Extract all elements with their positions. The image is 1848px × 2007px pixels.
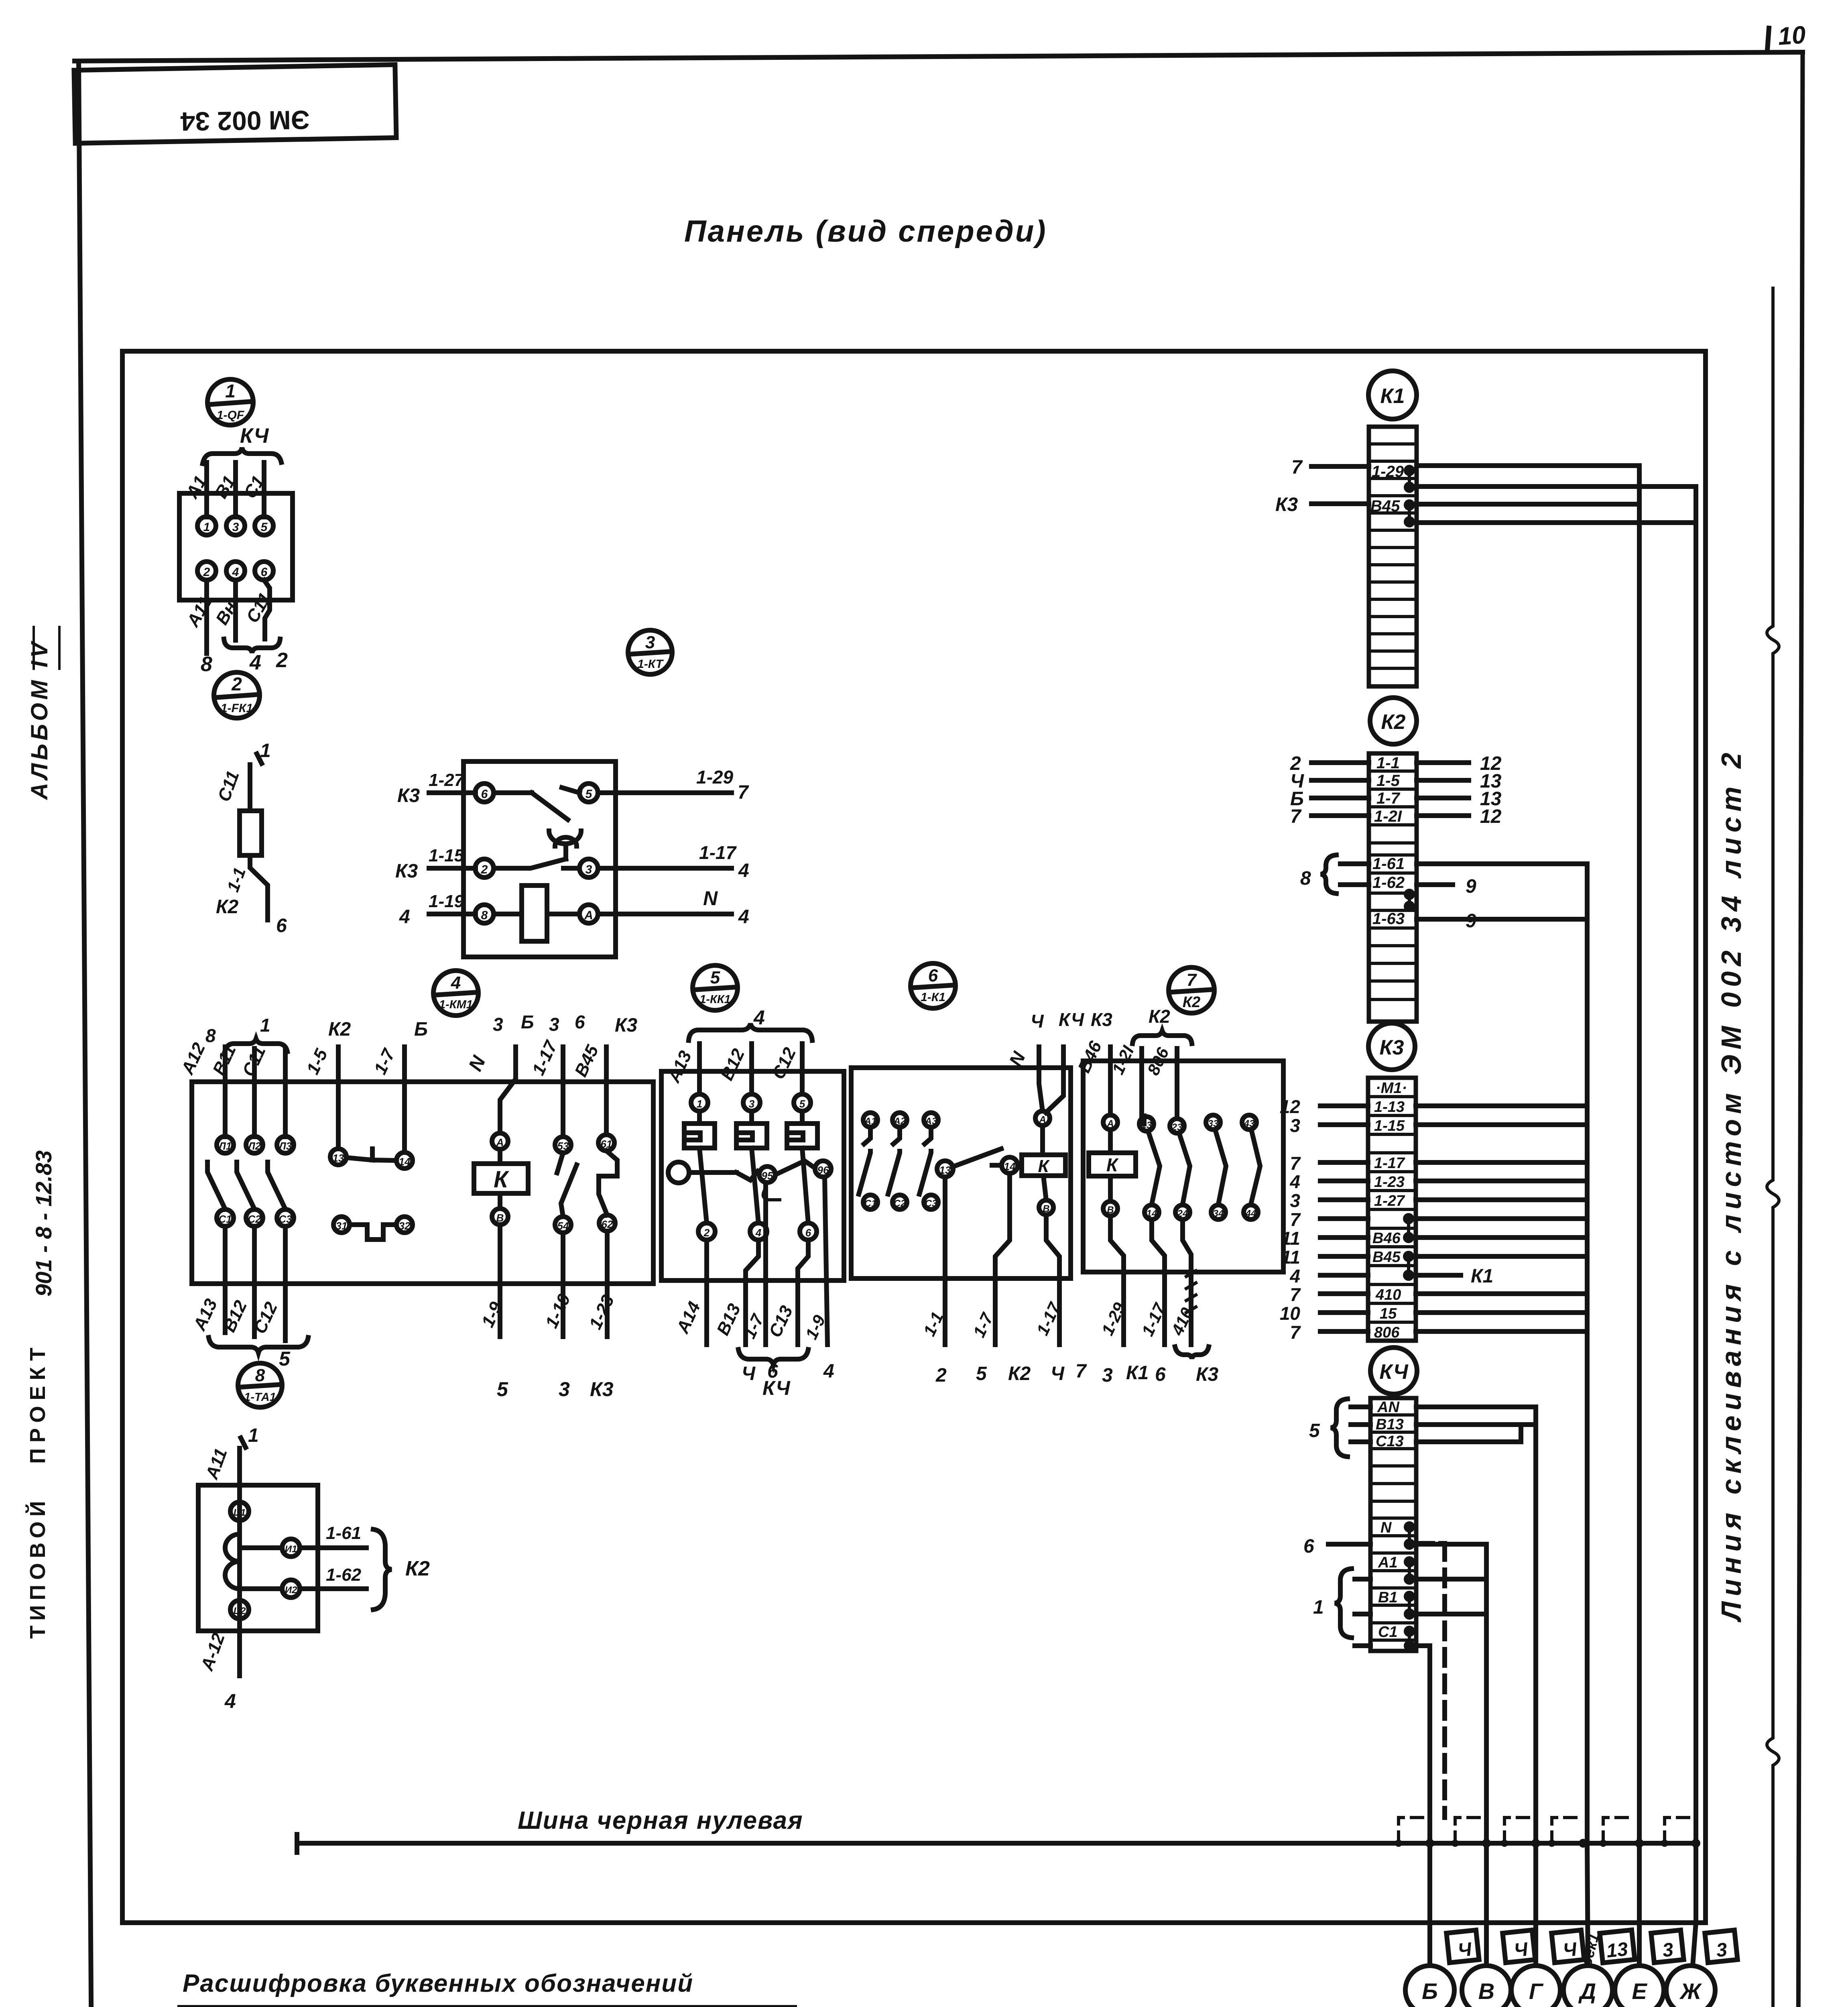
svg-text:1-7: 1-7 bbox=[1376, 790, 1401, 807]
svg-text:13: 13 bbox=[939, 1164, 951, 1176]
riser G upper corners bbox=[1519, 1425, 1523, 1442]
svg-text:1-7: 1-7 bbox=[370, 1045, 399, 1078]
svg-text:Линия склеивания с листом: Линия склеивания с листом ЭМ 002 34 лист… bbox=[1716, 747, 1747, 1622]
terminal 5 bbox=[579, 784, 598, 802]
svg-text:С1: С1 bbox=[218, 1213, 232, 1225]
bracket over B11 C11 bbox=[225, 1039, 287, 1052]
page border top bbox=[75, 52, 1803, 61]
K2 strip body bbox=[1369, 753, 1417, 1022]
blade 33-34 bbox=[1215, 1130, 1226, 1204]
svg-text:3: 3 bbox=[1290, 1115, 1300, 1136]
pole C wire out bbox=[283, 1226, 288, 1341]
page border right bbox=[1797, 52, 1803, 2007]
wire 12b from K2 bbox=[1417, 813, 1469, 818]
svg-text:8: 8 bbox=[481, 909, 488, 922]
aux 53-54 blade bbox=[557, 1153, 563, 1173]
terminal 3 bbox=[743, 1094, 760, 1111]
pole C wire in bbox=[283, 1050, 288, 1137]
coil terminal B bbox=[492, 1209, 508, 1225]
reset button bbox=[668, 1162, 689, 1183]
wire K1 jumper2 to riser Zh bbox=[1417, 520, 1696, 525]
svg-text:3: 3 bbox=[1661, 1939, 1674, 1962]
svg-text:1-КТ: 1-КТ bbox=[637, 657, 664, 671]
aux contact 31 bbox=[333, 1217, 350, 1233]
sheet number tick bbox=[1767, 28, 1769, 50]
contact 95-96 blade bbox=[776, 1161, 814, 1174]
svg-text:К1: К1 bbox=[1471, 1266, 1493, 1287]
wire B13 in bbox=[1351, 1422, 1370, 1427]
svg-text:4: 4 bbox=[224, 1690, 236, 1712]
aux contact 14 bbox=[396, 1152, 413, 1168]
contact A3 bbox=[924, 1113, 938, 1127]
svg-text:4: 4 bbox=[753, 1006, 765, 1029]
svg-text:Л1: Л1 bbox=[218, 1140, 232, 1152]
secondary lead 1-62 bbox=[240, 1586, 366, 1591]
contact 13 bbox=[1139, 1117, 1154, 1131]
svg-text:Панель (вид спереди): Панель (вид спереди) bbox=[684, 214, 1047, 248]
svg-text:АN: АN bbox=[1377, 1399, 1400, 1416]
fuse wire lower with jog bbox=[250, 855, 268, 920]
brace 1 left bbox=[1335, 1569, 1352, 1638]
svg-text:806: 806 bbox=[1144, 1044, 1173, 1078]
svg-text:Шина черная нулевая: Шина черная нулевая bbox=[518, 1807, 803, 1834]
coil terminal A bbox=[1035, 1111, 1050, 1126]
riser cable Zh bbox=[1693, 486, 1698, 1923]
wire K3 1-27 bbox=[429, 790, 476, 795]
svg-text:6: 6 bbox=[261, 566, 268, 579]
cable circle D bbox=[1563, 1966, 1612, 2007]
fuse wire upper bbox=[248, 765, 252, 811]
wire A11 out bbox=[204, 580, 209, 653]
svg-text:И1: И1 bbox=[285, 1544, 297, 1555]
wire B13 out bbox=[746, 1240, 758, 1345]
breaker QF body bbox=[179, 493, 293, 600]
svg-text:4: 4 bbox=[399, 906, 410, 928]
wire B45 K3 bbox=[604, 1047, 609, 1135]
svg-text:1: 1 bbox=[248, 1425, 259, 1446]
aux 61-62 blade bbox=[599, 1151, 617, 1215]
svg-text:К3: К3 bbox=[1380, 1036, 1404, 1059]
wire C11 out with jog bbox=[264, 580, 270, 639]
svg-text:6: 6 bbox=[1155, 1364, 1166, 1385]
pole B wire out bbox=[252, 1226, 257, 1337]
wire 1-21 bbox=[1139, 1048, 1144, 1116]
svg-text:14: 14 bbox=[399, 1156, 411, 1168]
svg-text:10: 10 bbox=[1280, 1303, 1301, 1324]
svg-text:К2: К2 bbox=[1149, 1006, 1170, 1027]
svg-text:1-КК1: 1-КК1 bbox=[699, 993, 731, 1006]
aux 54 wire out bbox=[561, 1233, 565, 1337]
inverted stamp box bbox=[74, 65, 396, 143]
svg-text:3: 3 bbox=[493, 1014, 503, 1035]
K1 jumper 1-29 bbox=[1406, 467, 1413, 491]
svg-text:1-2I: 1-2I bbox=[1374, 808, 1402, 825]
svg-text:11: 11 bbox=[1281, 1228, 1300, 1249]
blade 13-14 bbox=[1148, 1131, 1160, 1204]
svg-text:1-5: 1-5 bbox=[1376, 772, 1400, 790]
cable E drop bbox=[1637, 1843, 1642, 1966]
svg-text:1-КМ1: 1-КМ1 bbox=[439, 998, 473, 1011]
contact 33 bbox=[1206, 1115, 1220, 1130]
wire B12 in bbox=[749, 1044, 754, 1094]
svg-text:1-15: 1-15 bbox=[429, 846, 464, 865]
svg-text:53: 53 bbox=[557, 1140, 569, 1152]
position circle 3/1-KT bbox=[628, 630, 672, 674]
K3 jumper b bbox=[1405, 1253, 1412, 1278]
svg-text:КЧ: КЧ bbox=[762, 1377, 791, 1399]
svg-text:54: 54 bbox=[557, 1220, 569, 1232]
coil terminal A bbox=[492, 1133, 508, 1149]
svg-text:1-1: 1-1 bbox=[223, 865, 249, 894]
dashed hook top bbox=[1421, 1541, 1445, 1546]
coil terminal A bbox=[1103, 1115, 1118, 1130]
terminal 5 bbox=[794, 1094, 811, 1111]
svg-text:1-17: 1-17 bbox=[699, 842, 737, 863]
svg-text:Б: Б bbox=[521, 1012, 534, 1032]
svg-text:6: 6 bbox=[928, 966, 938, 985]
svg-text:К2: К2 bbox=[1008, 1363, 1031, 1384]
time contact blade bbox=[532, 793, 568, 820]
K4 strip body bbox=[1370, 1398, 1416, 1651]
coil A to coil bbox=[498, 1149, 502, 1164]
svg-text:К2: К2 bbox=[405, 1557, 430, 1580]
bracket 4 over KK1 bbox=[689, 1024, 812, 1040]
svg-text:410: 410 bbox=[1375, 1286, 1401, 1303]
cable B drop bbox=[1427, 1843, 1432, 1966]
svg-text:3: 3 bbox=[232, 521, 239, 534]
wire C1 pair to riser B bbox=[1416, 1643, 1430, 1648]
svg-text:1-63: 1-63 bbox=[1372, 910, 1405, 928]
svg-text:В46: В46 bbox=[1372, 1230, 1401, 1247]
svg-text:1: 1 bbox=[260, 740, 271, 761]
wire K1 jumper to riser Zh bbox=[1417, 484, 1696, 489]
wire C12 in bbox=[800, 1044, 805, 1094]
wire 1-61 in bbox=[1340, 861, 1369, 866]
contact A1 bbox=[863, 1113, 878, 1127]
coil terminal B bbox=[1103, 1201, 1118, 1216]
svg-text:1-27: 1-27 bbox=[1374, 1193, 1405, 1209]
terminal 2 bbox=[698, 1223, 715, 1240]
aux contact 32 bbox=[396, 1217, 413, 1233]
svg-text:В45: В45 bbox=[1370, 497, 1400, 515]
svg-text:1-23: 1-23 bbox=[586, 1292, 618, 1333]
14 wire out bbox=[1152, 1219, 1165, 1345]
hatch marks on 410 wire bbox=[1186, 1271, 1196, 1313]
contact 14 bbox=[1145, 1205, 1159, 1219]
wire 13b from K2 bbox=[1417, 796, 1469, 800]
wire K3 to K1 bbox=[1311, 501, 1369, 506]
svg-text:2: 2 bbox=[481, 863, 488, 876]
svg-text:С2: С2 bbox=[894, 1198, 906, 1209]
svg-text:4: 4 bbox=[1289, 1171, 1300, 1192]
node K2 bbox=[1370, 698, 1417, 744]
svg-text:1-ТА1: 1-ТА1 bbox=[244, 1391, 276, 1404]
riser cable B bbox=[1427, 1646, 1432, 1843]
svg-text:6: 6 bbox=[1303, 1536, 1314, 1557]
svg-text:5: 5 bbox=[1309, 1420, 1320, 1441]
bracket under A13 B12 C12 bbox=[209, 1337, 308, 1353]
K4 jumper B1 bbox=[1406, 1593, 1413, 1617]
cable Zh drop bbox=[1693, 1923, 1696, 1966]
svg-text:8: 8 bbox=[255, 1366, 265, 1385]
conductor count tag B bbox=[1446, 1930, 1479, 1962]
svg-text:44: 44 bbox=[1245, 1208, 1256, 1219]
coil right lead bbox=[547, 912, 579, 916]
wire B13 to riser G bbox=[1416, 1422, 1536, 1427]
terminal 8 bbox=[475, 905, 494, 923]
24 wire out hatched 410 bbox=[1183, 1219, 1191, 1345]
svg-text:ЭМ 002 34: ЭМ 002 34 bbox=[180, 105, 310, 136]
svg-text:1-29: 1-29 bbox=[696, 767, 733, 788]
svg-text:8: 8 bbox=[1300, 868, 1311, 889]
bus end tick bbox=[295, 1834, 299, 1852]
svg-text:2: 2 bbox=[276, 649, 288, 672]
svg-text:7: 7 bbox=[1187, 970, 1197, 990]
wire 6 to K2 bbox=[1311, 796, 1369, 800]
svg-text:К3: К3 bbox=[395, 861, 418, 882]
brace 5 left bbox=[1331, 1399, 1348, 1457]
svg-text:К: К bbox=[1038, 1156, 1050, 1176]
svg-text:1-13: 1-13 bbox=[1374, 1099, 1405, 1115]
terminal 2 bbox=[197, 562, 216, 580]
wire C13 in bbox=[1351, 1439, 1370, 1444]
blade 43-44 bbox=[1251, 1130, 1260, 1204]
svg-text:Л3: Л3 bbox=[278, 1140, 292, 1152]
svg-text:901 - 8 - 12.83: 901 - 8 - 12.83 bbox=[31, 1150, 56, 1297]
svg-text:13: 13 bbox=[333, 1152, 344, 1164]
svg-text:Ч: Ч bbox=[1031, 1011, 1044, 1032]
svg-text:К: К bbox=[1106, 1154, 1119, 1175]
svg-text:К3: К3 bbox=[1196, 1364, 1219, 1385]
pole C terminal C3 bbox=[277, 1209, 294, 1226]
wire 1-61 to riser D bbox=[1417, 861, 1587, 866]
terminal I1 bbox=[282, 1539, 300, 1557]
svg-text:А11: А11 bbox=[202, 1446, 231, 1482]
fuse body bbox=[240, 811, 262, 855]
aux contact 13 bbox=[937, 1161, 953, 1177]
terminal 6 bbox=[800, 1223, 817, 1240]
svg-text:8: 8 bbox=[201, 653, 212, 676]
K3 left pin numbers bbox=[1280, 1096, 1301, 1343]
svg-text:В13: В13 bbox=[1376, 1416, 1404, 1433]
pole B terminal L2 bbox=[246, 1136, 263, 1153]
svg-text:1-61: 1-61 bbox=[326, 1523, 361, 1543]
position circle 8/1-TA1 bbox=[238, 1363, 282, 1407]
terminal 3 bbox=[579, 859, 598, 877]
delay arc outer bbox=[549, 831, 581, 844]
svg-text:Ж: Ж bbox=[1679, 1979, 1702, 2004]
svg-text:В: В bbox=[496, 1212, 504, 1224]
roman IV overline bbox=[33, 627, 35, 669]
svg-text:Д: Д bbox=[1578, 1979, 1596, 2004]
wire 1-1 out bbox=[943, 1177, 947, 1345]
wire C13 to riser G bbox=[1416, 1439, 1521, 1444]
svg-text:С2: С2 bbox=[248, 1213, 261, 1225]
svg-text:15: 15 bbox=[1380, 1305, 1397, 1322]
contactor KM1 body bbox=[192, 1082, 653, 1284]
svg-text:7: 7 bbox=[1290, 1322, 1301, 1343]
svg-text:К2: К2 bbox=[216, 896, 239, 918]
K3 jumper a bbox=[1405, 1215, 1412, 1241]
svg-text:6: 6 bbox=[575, 1012, 585, 1032]
position circle 7/K2 bbox=[1169, 967, 1214, 1013]
wire K1 B45 to riser E bbox=[1417, 502, 1639, 507]
svg-text:3: 3 bbox=[549, 1014, 559, 1035]
svg-text:Ч: Ч bbox=[1513, 1939, 1529, 1961]
svg-text:К: К bbox=[494, 1166, 509, 1193]
pole B terminal C2 bbox=[246, 1209, 263, 1226]
svg-text:А13: А13 bbox=[664, 1048, 695, 1086]
wire B1 in bbox=[1355, 1612, 1370, 1616]
svg-text:4: 4 bbox=[232, 566, 239, 579]
K4 jumper A1 bbox=[1406, 1559, 1413, 1582]
svg-text:А: А bbox=[584, 909, 593, 922]
svg-text:3: 3 bbox=[1102, 1365, 1113, 1386]
svg-text:Расшифровка буквенных обозна: Расшифровка буквенных обозначений bbox=[183, 1970, 693, 1997]
dashed riser bbox=[1442, 1543, 1447, 1818]
svg-text:7: 7 bbox=[1290, 806, 1302, 827]
svg-text:А13: А13 bbox=[189, 1296, 221, 1334]
svg-text:1-15: 1-15 bbox=[1374, 1117, 1405, 1134]
svg-text:1: 1 bbox=[1313, 1597, 1324, 1618]
test contact 95 bbox=[759, 1166, 775, 1183]
svg-text:С3: С3 bbox=[279, 1213, 292, 1225]
cable D drop bbox=[1587, 1843, 1588, 1966]
wire 12 from K2 bbox=[1417, 760, 1469, 765]
wire N into coil bbox=[1039, 1047, 1043, 1111]
coil K1 bbox=[1022, 1155, 1065, 1176]
bracket under B11 C11 bbox=[224, 639, 280, 653]
svg-text:В45: В45 bbox=[571, 1042, 603, 1080]
aux contact 14 bbox=[1002, 1157, 1018, 1173]
svg-text:9: 9 bbox=[1466, 876, 1476, 897]
svg-text:1: 1 bbox=[260, 1015, 270, 1036]
svg-text:31: 31 bbox=[336, 1220, 348, 1232]
svg-text:КЧ: КЧ bbox=[240, 424, 269, 448]
coil KM1 bbox=[474, 1164, 528, 1193]
test blade bbox=[736, 1171, 758, 1180]
conductor count tag V bbox=[1502, 1930, 1535, 1962]
svg-text:Б: Б bbox=[414, 1019, 428, 1040]
svg-text:С1: С1 bbox=[864, 1198, 877, 1209]
heater 3 bbox=[787, 1111, 817, 1148]
position circle 4/1-KM1 bbox=[433, 971, 478, 1016]
wire 1-17 3 6 bbox=[561, 1047, 565, 1137]
terminal 3 bbox=[226, 517, 245, 535]
svg-text:1-19: 1-19 bbox=[429, 892, 464, 911]
svg-text:К1: К1 bbox=[1126, 1362, 1149, 1384]
wire 2 to K2 bbox=[1311, 760, 1369, 765]
wire B11 out bbox=[233, 580, 238, 640]
pole B blade bbox=[237, 1162, 254, 1209]
terminal 6 bbox=[255, 562, 273, 580]
pole A wire in bbox=[223, 1047, 228, 1137]
svg-text:7: 7 bbox=[1291, 457, 1303, 478]
svg-text:К3: К3 bbox=[590, 1378, 614, 1400]
heater 2 lead down bbox=[752, 1148, 758, 1223]
wire B1 pair to riser V bbox=[1416, 1612, 1486, 1616]
svg-text:N: N bbox=[465, 1052, 490, 1075]
svg-text:4: 4 bbox=[738, 860, 749, 881]
wire 1-62 to 9 bbox=[1417, 882, 1453, 887]
svg-text:7: 7 bbox=[738, 782, 749, 803]
svg-text:Е: Е bbox=[1632, 1979, 1647, 2004]
wire AN to riser G bbox=[1416, 1404, 1536, 1409]
svg-text:1-27: 1-27 bbox=[429, 770, 465, 790]
coil A wire N with jog bbox=[500, 1047, 516, 1133]
position circle 2/1-FK1 bbox=[214, 672, 260, 718]
svg-text:33: 33 bbox=[1208, 1118, 1219, 1129]
svg-text:7: 7 bbox=[1290, 1284, 1301, 1305]
svg-text:А12: А12 bbox=[177, 1040, 209, 1078]
svg-text:К3: К3 bbox=[615, 1015, 638, 1036]
K3 strip body bbox=[1368, 1078, 1416, 1341]
wire A1 into QF bbox=[204, 462, 209, 517]
fuse top lead tick bbox=[257, 754, 262, 763]
svg-text:АЛЬБОМ IV: АЛЬБОМ IV bbox=[26, 639, 53, 800]
K4 jumper N bbox=[1406, 1524, 1413, 1547]
riser cable V bbox=[1484, 1544, 1489, 1843]
svg-text:32: 32 bbox=[399, 1220, 411, 1232]
wire A1 in bbox=[1355, 1577, 1370, 1582]
contact T1 fixed lead bbox=[494, 790, 532, 795]
contact 44 bbox=[1244, 1205, 1258, 1219]
svg-text:КЧ: КЧ bbox=[1059, 1009, 1085, 1030]
svg-text:2: 2 bbox=[935, 1365, 947, 1386]
svg-text:95: 95 bbox=[762, 1170, 773, 1182]
cable circle E bbox=[1615, 1966, 1664, 2007]
wire K4 into coil bbox=[1046, 1047, 1063, 1113]
heater 3 lead down bbox=[802, 1148, 808, 1223]
svg-text:1-29: 1-29 bbox=[1372, 463, 1404, 480]
terminal 1 bbox=[691, 1094, 708, 1111]
svg-text:С12: С12 bbox=[768, 1044, 800, 1082]
terminal C2 bbox=[230, 1600, 249, 1619]
terminal 4 bbox=[750, 1223, 767, 1240]
heater 1 lead down bbox=[699, 1148, 707, 1223]
svg-text:5: 5 bbox=[799, 1098, 805, 1110]
bus black null bbox=[297, 1841, 1696, 1846]
glue line wavy bbox=[1767, 288, 1779, 2007]
svg-text:А-12: А-12 bbox=[197, 1630, 229, 1674]
svg-text:К2: К2 bbox=[1381, 710, 1406, 734]
K1 strip body bbox=[1369, 427, 1417, 686]
node K4 bbox=[1370, 1347, 1417, 1394]
svg-text:7: 7 bbox=[1290, 1153, 1301, 1174]
contact 34 bbox=[1211, 1205, 1226, 1219]
svg-text:1: 1 bbox=[697, 1098, 702, 1110]
K3 left wires bbox=[1320, 1106, 1368, 1331]
svg-text:13: 13 bbox=[1605, 1938, 1629, 1962]
svg-text:806: 806 bbox=[1374, 1324, 1400, 1341]
svg-text:1-К1: 1-К1 bbox=[921, 991, 945, 1004]
delay arc inner bbox=[555, 837, 577, 846]
relay KT body bbox=[464, 761, 616, 957]
secondary winding arcs bbox=[225, 1534, 240, 1589]
small hook under blade bbox=[763, 1190, 780, 1200]
riser cable D bbox=[1585, 864, 1590, 1843]
svg-text:Ч: Ч bbox=[742, 1363, 756, 1384]
wire K1 1-29 to riser E bbox=[1417, 463, 1639, 468]
svg-text:1-FК1: 1-FК1 bbox=[221, 702, 253, 715]
terminal A bbox=[579, 905, 598, 923]
svg-text:1-17: 1-17 bbox=[1374, 1155, 1405, 1172]
terminal 5 bbox=[255, 517, 273, 535]
terminal 1 bbox=[197, 517, 216, 535]
wire 1-62 in bbox=[1340, 882, 1369, 887]
coil left lead bbox=[494, 912, 522, 916]
cable circle V bbox=[1462, 1966, 1511, 2007]
